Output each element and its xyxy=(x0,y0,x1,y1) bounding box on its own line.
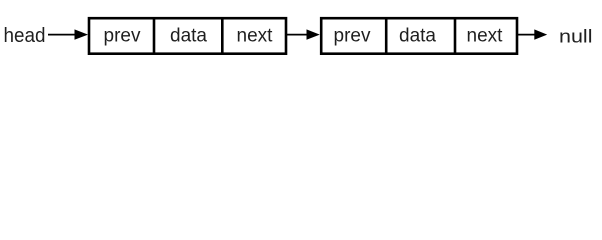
svg-text:null: null xyxy=(559,26,593,46)
svg-text:prev: prev xyxy=(334,26,371,47)
svg-text:next: next xyxy=(237,26,274,47)
svg-text:data: data xyxy=(170,26,207,47)
svg-text:head: head xyxy=(4,25,46,47)
svg-text:next: next xyxy=(467,26,504,47)
svg-text:data: data xyxy=(399,26,436,47)
svg-text:prev: prev xyxy=(104,26,141,47)
